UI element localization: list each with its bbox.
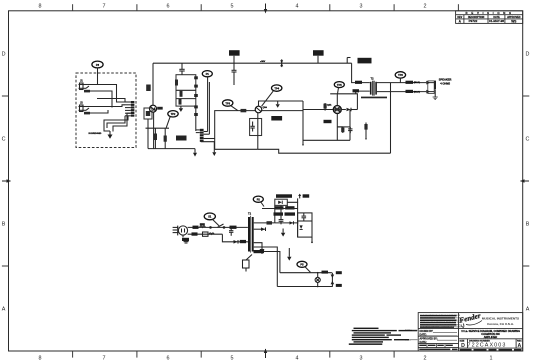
label row 2 — [275, 206, 284, 209]
label BLK — [193, 226, 199, 229]
finish row — [419, 349, 450, 351]
label V3 — [336, 284, 342, 287]
callout TP7 — [253, 196, 263, 202]
collector rail — [330, 94, 357, 110]
connector CP2 pins — [200, 129, 204, 142]
zone tick right B/A — [523, 265, 530, 267]
feedback wire — [258, 149, 391, 153]
label F1 — [200, 223, 205, 225]
speaker SP1 — [428, 81, 436, 94]
ground G3 — [193, 149, 197, 157]
svg-text:MUSICAL INSTRUMENTS: MUSICAL INSTRUMENTS — [482, 316, 519, 320]
svg-text:DRAWN BY:: DRAWN BY: — [420, 330, 434, 333]
diode CR11 inside loop — [278, 201, 282, 204]
secondary wire 2 — [254, 228, 266, 230]
center arrow top — [265, 4, 267, 13]
wire Q5 to driver — [262, 110, 303, 112]
callout TP8 — [297, 261, 307, 267]
svg-text:AMPLIFIER: AMPLIFIER — [484, 336, 498, 339]
capacitor C12 box — [250, 119, 262, 136]
zone tick top 2/3 — [393, 4, 395, 11]
wire CP2 to ground arrow — [201, 142, 215, 153]
pilot lamp PL1 — [315, 273, 320, 287]
AC neutral wire — [188, 233, 223, 235]
AC plug P2 — [173, 226, 188, 236]
wire TP4 pointer — [262, 91, 274, 106]
switch S1 — [210, 224, 225, 228]
wire CR4 to rail — [352, 109, 358, 111]
svg-text:TP6: TP6 — [398, 73, 403, 77]
ground G9 — [287, 248, 291, 261]
svg-text:P3: P3 — [96, 63, 100, 67]
connector CP1 pins — [131, 101, 135, 117]
wire CP2 drop — [208, 82, 210, 134]
capacitor C30 — [229, 227, 233, 235]
jack J1 — [79, 80, 91, 90]
transistor Q1 — [150, 105, 157, 112]
regulator box divider — [298, 220, 312, 222]
svg-text:A: A — [518, 343, 522, 349]
svg-text:D: D — [461, 343, 465, 349]
up arrow mark — [298, 194, 301, 199]
wire Q2 collector — [336, 94, 338, 106]
svg-text:TP5: TP5 — [337, 83, 342, 87]
wire jack returns — [90, 91, 112, 108]
resistor R18 — [324, 103, 327, 111]
connector callout P1A — [202, 71, 212, 77]
svg-text:(BLK): (BLK) — [414, 82, 420, 84]
zone tick bottom 3/4 — [329, 351, 331, 358]
svg-text:B: B — [526, 222, 530, 228]
zone numbers top — [39, 4, 427, 10]
resistor R20 — [337, 127, 344, 133]
zone tick bottom 5/6 — [200, 351, 202, 358]
zone numbers bottom — [39, 356, 493, 362]
net label +32V — [303, 194, 310, 197]
svg-text:C: C — [526, 137, 530, 143]
junction dot heater 2 — [317, 286, 319, 288]
svg-text:1: 1 — [490, 356, 493, 362]
rail drop wire — [297, 202, 299, 237]
resistor R30 — [267, 221, 273, 224]
wire TP8 pointer — [305, 267, 311, 273]
label WHT — [192, 232, 198, 235]
wire lower junction — [146, 127, 170, 129]
capacitor C28 — [260, 248, 264, 255]
ground G6 speaker — [433, 97, 438, 100]
main B+ bus wire — [153, 62, 352, 64]
bottom bus wire — [148, 148, 195, 150]
fender logo — [459, 312, 482, 328]
svg-text:4: 4 — [296, 356, 299, 362]
svg-text:TP2: TP2 — [171, 112, 176, 116]
gain ladder network — [176, 75, 196, 106]
transistor Q5 — [255, 106, 262, 113]
wire TP7 pointer — [261, 202, 264, 207]
svg-text:(BLK): (BLK) — [414, 91, 420, 93]
diode CR10 — [261, 227, 266, 231]
transformer T1 — [248, 212, 254, 253]
rail wire to +32V — [287, 198, 297, 202]
connector chevron bottom — [426, 90, 429, 93]
label BLK 2 — [230, 226, 237, 229]
svg-text:WS: WS — [511, 19, 516, 23]
jack J2 — [79, 102, 91, 112]
svg-text:THE PRIOR WRITTEN CONSENT OF F: THE PRIOR WRITTEN CONSENT OF FENDER. — [420, 327, 462, 329]
net label +32V UNREG — [276, 194, 292, 198]
net label box B2 — [313, 50, 324, 56]
svg-text:TP3: TP3 — [225, 101, 230, 105]
label CKT — [240, 240, 246, 243]
node end dot — [311, 241, 313, 243]
thermistor RT1 — [203, 232, 209, 236]
ground G5 — [276, 101, 280, 108]
wire label B2 to bus — [317, 56, 319, 64]
svg-text:D: D — [2, 52, 6, 58]
ground G4 — [212, 152, 216, 156]
zone tick top 5/6 — [200, 4, 202, 11]
svg-text:P2: P2 — [257, 198, 261, 202]
wire T2 secondary bottom — [377, 91, 434, 93]
svg-text:R E V I S I O N S: R E V I S I O N S — [466, 11, 513, 15]
zone tick top 3/4 — [329, 4, 331, 11]
label F2 box — [358, 58, 372, 64]
callout TP5 — [334, 82, 344, 88]
wire filter row — [281, 222, 298, 224]
wire box drop — [311, 237, 313, 242]
svg-text:B: B — [2, 222, 6, 228]
AC hot wire — [188, 226, 248, 228]
svg-text:3: 3 — [360, 4, 363, 10]
fuse F2 tick — [347, 58, 350, 64]
label V1 — [322, 271, 329, 274]
label C15 — [324, 120, 332, 123]
wire Q2 emitter — [336, 114, 338, 141]
callout TP4 — [272, 85, 282, 91]
fuse F1 — [200, 226, 206, 227]
label T2 part number — [361, 97, 387, 99]
secondary wire 1 — [254, 222, 275, 224]
svg-text:Q5A: Q5A — [263, 106, 268, 109]
svg-text:APPROVED BY:: APPROVED BY: — [420, 338, 438, 341]
wire ladder strip down — [195, 106, 197, 131]
svg-text:5: 5 — [231, 356, 234, 362]
riser wire — [215, 111, 256, 150]
zone tick bottom 2/3 — [393, 351, 395, 358]
rectifier rail A — [274, 205, 276, 223]
label RED — [353, 89, 360, 92]
wire P1A down — [207, 77, 209, 132]
capacitor C2 — [179, 63, 184, 74]
svg-text:SPEAKER: SPEAKER — [439, 78, 452, 82]
resistor R8 — [179, 99, 182, 105]
label V2 — [336, 271, 342, 274]
finish label stub — [405, 330, 418, 342]
svg-text:DATE:: DATE: — [420, 334, 427, 337]
svg-text:P9722: P9722 — [469, 19, 478, 23]
feedback drop wire — [390, 83, 392, 154]
revisions table — [456, 11, 523, 24]
zone tick right D/C — [523, 95, 530, 97]
diode CR14 — [290, 221, 294, 224]
zone tick left D/C — [2, 95, 9, 97]
resistor R10 — [154, 128, 157, 148]
ground G7 bars — [184, 242, 189, 243]
svg-text:C: C — [2, 137, 6, 143]
callout TP2 — [168, 111, 178, 117]
AC neutral step wire — [222, 234, 248, 242]
zone letters left — [2, 52, 6, 313]
label R12 — [176, 136, 187, 141]
svg-text:D: D — [526, 52, 530, 58]
net label +38V box — [229, 50, 240, 56]
svg-text:2: 2 — [424, 356, 427, 362]
callout TP6 — [395, 72, 405, 78]
label R3 — [146, 85, 151, 92]
resistor R1 at J1 — [84, 90, 90, 93]
diode CR2 on bus — [280, 59, 283, 67]
ground G1 — [108, 131, 113, 139]
callout TP3 — [223, 100, 233, 106]
label 6.3VAC — [254, 250, 265, 253]
small cells row — [419, 344, 457, 351]
wire Q5 emitter — [257, 113, 259, 150]
title block — [418, 313, 523, 351]
svg-text:6: 6 — [167, 4, 170, 10]
zone tick top 1/2 — [457, 4, 459, 11]
ladder rung wires — [176, 89, 196, 91]
bottom scale row — [460, 349, 522, 351]
resistor R6 — [175, 80, 178, 86]
diode CR12 — [300, 225, 303, 230]
wire Q5 collector — [259, 101, 304, 106]
resistor R7 — [180, 91, 183, 97]
wire loop bottom drop — [280, 205, 282, 216]
wire TP5 pointer — [338, 88, 339, 94]
heater bus top — [280, 272, 332, 274]
svg-text:8: 8 — [39, 356, 42, 362]
wire J1 to connector — [90, 85, 125, 103]
diode stack on ladder right — [194, 76, 198, 116]
ground G8 — [281, 229, 285, 237]
zone letters right — [526, 52, 530, 313]
svg-text:4 OHMS: 4 OHMS — [440, 82, 450, 86]
wire bus to Q1 — [152, 63, 154, 105]
label GRN — [182, 238, 189, 241]
wire driver right — [349, 110, 351, 141]
return loop wires to ground — [97, 99, 125, 103]
label row 3 — [274, 212, 284, 215]
zone tick top 6/7 — [136, 4, 138, 11]
svg-text:722CAX003: 722CAX003 — [468, 343, 507, 349]
switch S2 stub — [243, 255, 253, 272]
wires into CP1 — [125, 101, 131, 103]
wire TP6 stem — [399, 78, 401, 83]
svg-text:3: 3 — [360, 356, 363, 362]
svg-text:01-MAY-98: 01-MAY-98 — [489, 19, 504, 23]
callout PANEL — [204, 213, 215, 220]
resistor R2 at J2 — [84, 112, 90, 115]
diode CR13 — [331, 273, 335, 287]
wire loop right drop — [286, 205, 288, 208]
label BLU — [355, 81, 362, 84]
notes block — [349, 328, 417, 345]
wire J2 to connector — [90, 105, 125, 107]
zone tick top 7/8 — [72, 4, 74, 11]
junction dot heater — [317, 272, 319, 274]
wire TP2 pointer — [166, 116, 170, 128]
center arrow right — [521, 180, 530, 182]
regulator rail wire — [262, 208, 298, 210]
rectifier box loop — [275, 199, 288, 205]
center arrow left — [2, 180, 11, 182]
bottom bus segment B — [215, 148, 258, 150]
secondary tap wires lower — [254, 243, 262, 248]
svg-text:Corona, CA U.S.A.: Corona, CA U.S.A. — [487, 322, 514, 326]
transistor Q2 — [333, 106, 341, 114]
wire PANEL pointer — [213, 219, 220, 226]
wire TP3 pointer — [231, 106, 238, 111]
bias bus wire — [303, 139, 350, 141]
svg-text:7: 7 — [103, 4, 106, 10]
wire heater 1 — [254, 247, 278, 287]
drawn by row — [420, 330, 458, 344]
zone tick bottom 7/8 — [72, 351, 74, 358]
svg-text:4: 4 — [296, 4, 299, 10]
transformer T2 — [370, 77, 377, 96]
disclaimer text block — [420, 315, 457, 328]
junction dot driver rail — [302, 144, 304, 146]
input shield dashed box — [76, 73, 136, 148]
svg-text:6: 6 — [167, 356, 170, 362]
svg-text:P1: P1 — [206, 72, 210, 76]
capacitor C29 branch — [232, 63, 237, 85]
resistor R11 — [164, 128, 167, 148]
wire CP2 to riser — [204, 138, 215, 140]
capacitor C27 — [302, 213, 307, 221]
wire T2 primary bottom — [356, 91, 370, 94]
svg-text:5: 5 — [231, 4, 234, 10]
fuse squiggle 2 — [209, 233, 214, 234]
resistor R4 ladder box — [144, 108, 152, 119]
svg-text:DATE:: DATE: — [420, 341, 427, 344]
wire base Q2 — [303, 109, 333, 111]
ground G7 plug — [182, 235, 184, 237]
capacitor C12 — [250, 122, 254, 132]
connector callout P3 — [92, 61, 103, 68]
driver rail wire — [302, 101, 304, 145]
heater bus bottom — [277, 286, 332, 288]
resistor R24 — [241, 109, 247, 112]
regulator box loop — [298, 213, 312, 237]
resistor R5 mark — [146, 111, 150, 116]
ground G2 — [179, 106, 183, 112]
label R14 — [271, 116, 282, 121]
svg-text:S1: S1 — [208, 215, 212, 219]
center arrow bottom — [265, 349, 267, 358]
resistor R21 — [364, 123, 367, 140]
svg-text:A: A — [526, 307, 530, 313]
connector chevron top — [426, 81, 429, 84]
wire heater 2 — [254, 252, 280, 273]
svg-text:P5: P5 — [300, 263, 304, 267]
title text — [461, 330, 520, 339]
svg-text:Q2A: Q2A — [327, 104, 332, 107]
diode CR4 — [347, 108, 352, 112]
label BK wire top — [406, 81, 414, 84]
svg-text:8: 8 — [39, 4, 42, 10]
wire speaker to ground — [434, 89, 436, 97]
svg-text:+38V: +38V — [260, 61, 266, 63]
wire Q2 right — [341, 109, 346, 111]
svg-text:FINISH: FINISH — [405, 330, 412, 332]
wire label to bus — [233, 56, 235, 64]
svg-text:2: 2 — [424, 4, 427, 10]
svg-text:7: 7 — [103, 356, 106, 362]
svg-text:A: A — [2, 307, 6, 313]
zone tick bottom 6/7 — [136, 351, 138, 358]
capacitor C26 — [279, 217, 284, 225]
label BK wire bottom — [406, 90, 414, 93]
label Q1 — [157, 107, 163, 110]
wire bus to T2 primary — [352, 63, 370, 82]
svg-text:IN BRIDGED: IN BRIDGED — [89, 133, 102, 135]
capacitor C16 — [337, 127, 352, 133]
wire T2 secondary top — [377, 82, 434, 84]
wire R4 to bus bottom — [147, 119, 149, 149]
diode CR8 — [234, 240, 239, 244]
svg-text:TP4: TP4 — [274, 86, 279, 90]
wire Q1 emitter — [153, 112, 155, 148]
junction dot rect — [297, 222, 299, 224]
zone tick left B/A — [2, 265, 9, 267]
wire cap row — [275, 214, 281, 225]
wires ladder to CP2 — [196, 129, 200, 131]
wire P3 to input box — [97, 68, 99, 85]
